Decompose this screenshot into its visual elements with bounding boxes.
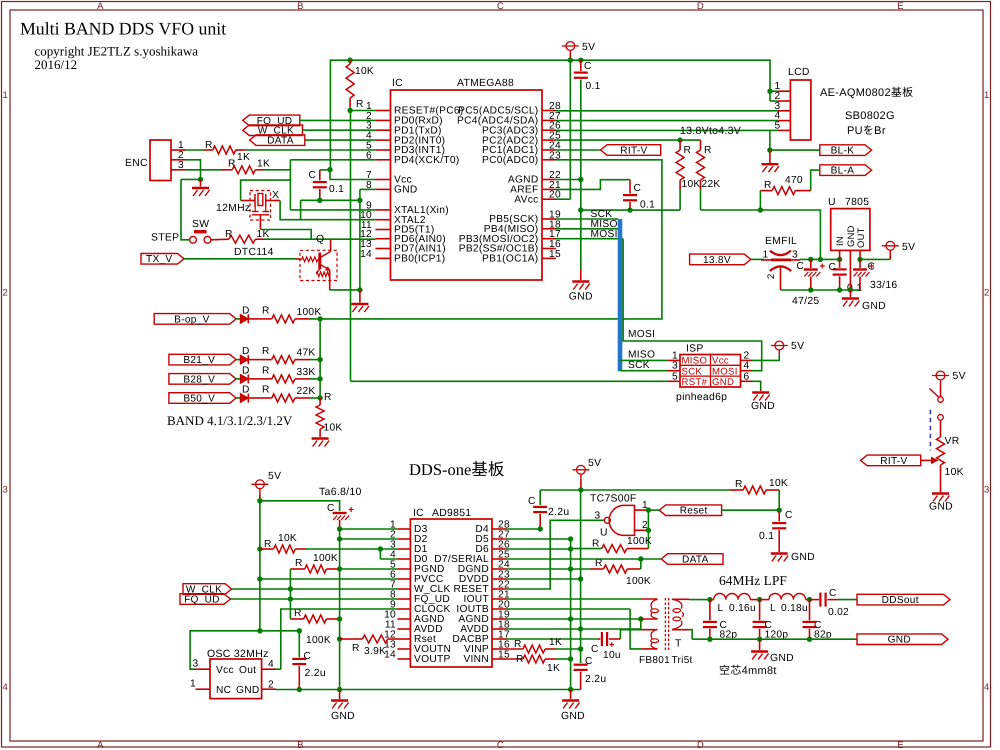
svg-text:E: E	[897, 740, 904, 750]
inductor L 0.16u	[707, 597, 712, 602]
wire 470R to 13.8V line	[759, 191, 761, 210]
svg-text:3: 3	[178, 160, 184, 171]
svg-text:D: D	[242, 346, 250, 357]
power 5V out	[886, 241, 895, 250]
wire RESET rail down to ISP RST#	[350, 111, 352, 382]
flag W_CLK	[243, 125, 303, 136]
AD9851 pin 19 AGND	[492, 618, 507, 620]
flag DATA top	[250, 135, 305, 146]
svg-text:2: 2	[984, 287, 990, 298]
svg-text:T: T	[675, 639, 682, 650]
wire w3 leads	[641, 629, 657, 631]
AD9851 pin 17 DACBP	[492, 638, 507, 640]
svg-text:4: 4	[3, 682, 9, 693]
ATMEGA88 pin 28 PC5(ADC5/SCL)	[542, 110, 556, 112]
wire AREF pin21 jog	[556, 180, 630, 190]
node VINN gnd	[568, 656, 573, 661]
wire 5V rail x259	[259, 501, 261, 631]
wire SCK to ISP3	[620, 370, 668, 372]
svg-text:GND: GND	[569, 292, 593, 303]
flag B21_V	[169, 354, 236, 365]
AD9851 pin 4 D0	[397, 558, 410, 560]
svg-text:OUT: OUT	[855, 227, 866, 248]
svg-text:D: D	[697, 1, 704, 12]
wire 7805 out to 5V	[860, 258, 890, 260]
wire AGND pin22	[556, 179, 581, 181]
svg-text:R: R	[295, 558, 303, 569]
svg-text:R: R	[704, 145, 712, 156]
svg-text:IN: IN	[834, 236, 845, 246]
svg-text:R: R	[205, 140, 213, 151]
svg-text:15: 15	[549, 249, 561, 260]
svg-text:GND: GND	[862, 301, 886, 312]
flag FQ_UD	[243, 115, 300, 126]
svg-text:GND: GND	[929, 502, 953, 513]
node L1-L2	[757, 597, 762, 602]
node 7805 IN	[837, 257, 842, 262]
resistor R 10K divider	[679, 140, 681, 150]
node AGND-gnd	[568, 616, 573, 621]
svg-text:0.16u: 0.16u	[729, 603, 756, 614]
wire DATA riser	[640, 559, 642, 569]
svg-text:2.2u: 2.2u	[548, 507, 569, 518]
node Vcc C junction	[327, 167, 332, 172]
ATMEGA88 pin 18 PB4(MISO)	[542, 228, 556, 230]
flag B50_V	[169, 393, 236, 404]
svg-text:R: R	[514, 639, 522, 650]
node 5V-sym	[568, 58, 573, 63]
5V power symbol top rail	[566, 42, 575, 51]
svg-text:Out: Out	[239, 665, 256, 676]
svg-text:1K: 1K	[547, 663, 560, 674]
svg-text:SCK: SCK	[628, 360, 650, 371]
ATMEGA88 pin 1 RESET#(PC6)	[375, 110, 390, 112]
svg-text:R: R	[225, 229, 233, 240]
AD9851 pin 23 DVDD	[492, 578, 507, 580]
wire D1 row	[380, 548, 397, 550]
resistor R 470	[811, 170, 820, 191]
svg-text:0.1: 0.1	[586, 81, 601, 92]
AD9851 pin 18 AVDD	[492, 628, 507, 630]
svg-text:C: C	[585, 656, 593, 667]
flag 13.8V	[690, 254, 751, 265]
node 5V-R10K	[347, 58, 352, 63]
svg-text:GND: GND	[770, 653, 794, 664]
svg-text:100K: 100K	[306, 635, 331, 646]
wire 5V to 2.2u	[260, 631, 299, 658]
svg-text:100K: 100K	[313, 553, 338, 564]
diode D (B28_V)	[236, 378, 240, 380]
svg-text:C: C	[785, 510, 793, 521]
node gnd 47/25	[808, 287, 813, 292]
capacitor C 2.2u (D4)	[539, 490, 541, 505]
svg-text:SW: SW	[192, 219, 209, 230]
node C0.1 bottom	[317, 198, 322, 203]
wire 13.8V rail	[800, 258, 840, 260]
svg-text:12MHz: 12MHz	[216, 203, 250, 214]
svg-text:2.2u: 2.2u	[305, 668, 326, 679]
svg-text:C: C	[497, 740, 504, 750]
capacitor C 47/25	[810, 259, 812, 268]
svg-text:0.1: 0.1	[640, 200, 655, 211]
ground GND dds	[339, 690, 341, 700]
diode D (B21_V)	[236, 359, 240, 361]
node gnd C0.1	[837, 287, 842, 292]
ATMEGA88 pin 3 PD1(TxD)	[375, 129, 390, 131]
svg-text:FB801: FB801	[639, 655, 670, 666]
wire w2 bottom to lpf gnd	[689, 630, 692, 640]
svg-text:GND: GND	[751, 401, 775, 412]
svg-text:33/16: 33/16	[870, 280, 898, 291]
svg-text:C: C	[497, 1, 504, 12]
svg-text:2: 2	[268, 680, 274, 691]
diode D (B50_V)	[236, 397, 240, 399]
wire w2 leads	[672, 598, 690, 600]
svg-text:5: 5	[672, 371, 678, 382]
wire 5V to Ta cap	[260, 501, 340, 511]
node nand in1	[646, 507, 651, 512]
svg-text:BL-K: BL-K	[831, 146, 855, 157]
node AGND	[578, 177, 583, 182]
AD9851 pin 2 D2	[397, 538, 410, 540]
ATMEGA88 pin 25 PC2(ADC2)	[542, 139, 556, 141]
svg-text:NC: NC	[216, 685, 231, 696]
svg-text:RIT-V: RIT-V	[620, 145, 647, 156]
node D1 jog	[378, 546, 383, 551]
wire DVDD row	[507, 578, 581, 580]
wire LCD5 to BL-K	[769, 130, 771, 150]
wire DGND row	[507, 568, 571, 570]
svg-text:E: E	[897, 1, 904, 12]
svg-text:GND: GND	[236, 685, 260, 696]
capacitor C 0.02	[810, 599, 820, 601]
ground GND ISP	[752, 391, 769, 393]
ground GND band	[312, 437, 329, 439]
svg-text:DDS-one基板: DDS-one基板	[409, 460, 504, 479]
ATMEGA88 pin 20 AVcc	[542, 198, 556, 200]
potentiometer VR 10K	[940, 420, 942, 437]
svg-text:MOSI: MOSI	[591, 229, 618, 240]
svg-text:10K: 10K	[355, 66, 374, 77]
ATMEGA88 pin 13 PD7(AIN1)	[375, 248, 390, 250]
node 2.2u top	[297, 628, 302, 633]
svg-text:0.02: 0.02	[828, 607, 849, 618]
svg-text:47/25: 47/25	[792, 296, 820, 307]
svg-text:AVcc: AVcc	[514, 194, 538, 205]
node band B50_V	[317, 395, 322, 400]
svg-text:33K: 33K	[297, 367, 316, 378]
svg-text:Ta6.8/10: Ta6.8/10	[319, 486, 362, 498]
wire nand output to DDS RESET	[507, 520, 605, 589]
wire C0.1 to AGND	[580, 80, 582, 180]
svg-text:R: R	[262, 346, 270, 357]
wire STEP to PD6	[264, 238, 375, 240]
svg-text:D: D	[242, 365, 250, 376]
capacitor C 2.2u (OSC)	[292, 658, 306, 660]
svg-text:ISP: ISP	[686, 344, 704, 355]
svg-text:PB0(ICP1): PB0(ICP1)	[394, 254, 445, 265]
svg-text:AD9851: AD9851	[432, 508, 471, 519]
svg-text:L: L	[718, 603, 724, 614]
svg-text:R: R	[592, 539, 600, 550]
wire STEP left riser	[181, 179, 190, 239]
svg-text:Reset: Reset	[680, 506, 708, 517]
ground GND lpf	[759, 639, 761, 650]
capacitor C 0.1 at 5V rail	[580, 60, 582, 71]
wire ISP Vcc	[752, 355, 779, 361]
svg-text:R: R	[262, 365, 270, 376]
ATMEGA88 pin 27 PC4(ADC4/SDA)	[542, 119, 556, 121]
svg-text:Multi BAND DDS VFO unit: Multi BAND DDS VFO unit	[20, 19, 226, 39]
node BL-K	[767, 147, 772, 152]
ATMEGA88 pin 19 PB5(SCK)	[542, 218, 556, 220]
flag RIT-V (VR)	[861, 455, 921, 466]
AD9851 pin 13 VOUTN	[397, 648, 410, 650]
resistor R 22K divider	[700, 140, 702, 150]
svg-text:0.1: 0.1	[329, 184, 344, 195]
wire V2 xtal2 jog	[300, 200, 302, 219]
node AVDD 5V	[578, 626, 583, 631]
svg-text:RIT-V: RIT-V	[880, 456, 907, 467]
power 5V VR	[936, 371, 945, 380]
wire PVCC row	[257, 576, 262, 581]
svg-text:BL-A: BL-A	[831, 166, 855, 177]
svg-text:10K: 10K	[324, 423, 343, 434]
wire D4 row	[507, 528, 541, 530]
wire AGND row	[507, 618, 641, 620]
svg-text:B: B	[297, 740, 304, 750]
svg-text:A: A	[97, 740, 104, 750]
ATMEGA88 pin 11 PD5(T1)	[375, 229, 390, 231]
svg-text:TC7S00F: TC7S00F	[590, 494, 637, 505]
node divider top	[677, 137, 682, 142]
wire SCK pin19	[556, 218, 618, 220]
svg-text:LCD: LCD	[788, 67, 810, 78]
svg-text:64MHz LPF: 64MHz LPF	[719, 573, 787, 588]
wire ENC gnd stub	[200, 179, 202, 186]
node riser1384	[818, 257, 823, 262]
svg-text:GND: GND	[791, 552, 815, 563]
svg-text:C: C	[591, 644, 599, 655]
svg-text:10K: 10K	[769, 478, 788, 489]
AD9851 pin 14 VOUTP	[397, 658, 410, 660]
ATMEGA88 pin 4 PD2(INT0)	[375, 139, 390, 141]
wire ENC1 to PD3	[245, 149, 375, 151]
node gnd rail x570 bottom	[568, 687, 573, 692]
svg-text:1K: 1K	[257, 159, 270, 170]
svg-text:100K: 100K	[627, 536, 652, 547]
node 100K gnd	[337, 616, 342, 621]
flag W_CLK (DDS)	[183, 584, 232, 595]
node VINP 5V	[578, 646, 583, 651]
AD9851 pin 8 FQ_UD	[397, 598, 410, 600]
wire power gnd rail	[781, 289, 861, 291]
wire riser agnd to w3 line	[640, 619, 642, 630]
svg-text:PC0(ADC0): PC0(ADC0)	[482, 155, 538, 166]
svg-text:Tri5t: Tri5t	[672, 655, 693, 666]
svg-text:6: 6	[744, 371, 750, 382]
wire 5V rail to 10K	[581, 489, 730, 491]
wire 5V to LCD	[770, 100, 777, 102]
ground GND VR	[932, 492, 949, 494]
AD9851 pin 10 AGND	[397, 618, 410, 620]
node 5V-C	[578, 58, 583, 63]
wire D3 row	[340, 528, 398, 530]
node D6	[568, 546, 573, 551]
svg-text:10K: 10K	[278, 533, 297, 544]
svg-text:5V: 5V	[268, 471, 281, 482]
ground GND power	[849, 290, 851, 297]
AD9851 pin 25 D7/SERIAL	[492, 558, 507, 560]
svg-text:空芯4mm8t: 空芯4mm8t	[719, 664, 777, 677]
svg-text:3.9K: 3.9K	[364, 646, 386, 657]
wire Reset to flag	[722, 509, 780, 511]
power 5V at ISP	[775, 341, 784, 350]
ATMEGA88 pin 7 Vcc	[375, 179, 390, 181]
svg-text:GND: GND	[561, 711, 585, 722]
wire band junction column	[319, 319, 321, 398]
svg-text:GND: GND	[331, 711, 355, 722]
wire SDA PC4 to LCD4	[556, 120, 777, 122]
svg-text:ATMEGA88: ATMEGA88	[457, 78, 514, 89]
node 47/25	[808, 257, 813, 262]
svg-text:14: 14	[360, 249, 372, 260]
wire dashed switch link	[929, 410, 931, 451]
svg-text:13.8Vto4.3V: 13.8Vto4.3V	[680, 125, 741, 137]
svg-text:B-op_V: B-op_V	[174, 314, 209, 325]
resistor R 22K (B50_V)	[249, 397, 262, 399]
wire junction column x290	[289, 160, 291, 210]
ground GND below IC	[351, 303, 368, 305]
AD9851 pin 16 VINP	[492, 648, 507, 650]
wire MISO to ISP1	[620, 359, 668, 361]
wire 5V rail	[569, 55, 571, 60]
svg-text:5V: 5V	[588, 458, 601, 469]
svg-text:EMFIL: EMFIL	[765, 236, 797, 247]
node 2.2u gnd	[297, 687, 302, 692]
node AGND-w3	[638, 616, 643, 621]
wire PC2 row to divider	[556, 139, 701, 141]
ATMEGA88 pin 5 PD3(INT1)	[375, 149, 390, 151]
node lpf2	[757, 637, 762, 642]
svg-text:SB0802G: SB0802G	[845, 110, 895, 122]
resistor R 100K (FQ_UD pulldown)	[290, 618, 303, 620]
svg-text:R: R	[262, 305, 270, 316]
node band B28_V	[317, 376, 322, 381]
wire ENC gnd h	[181, 178, 201, 180]
AD9851 pin 24 DGND	[492, 568, 507, 570]
wire Vcc pin7	[330, 170, 375, 180]
resistor R 3.9K (Rset)	[337, 636, 342, 641]
wire D0 row	[380, 558, 397, 560]
ground GND reset	[771, 552, 788, 554]
svg-text:5V: 5V	[791, 341, 804, 352]
wire nand inputs	[635, 509, 649, 511]
resistor R 100K (B-op_V)	[249, 318, 262, 320]
svg-text:DATA: DATA	[267, 136, 294, 147]
wire W_CLK row	[232, 588, 398, 590]
svg-text:C: C	[829, 588, 837, 599]
svg-text:L: L	[770, 603, 776, 614]
AD9851 pin 9 CLOCK	[397, 608, 410, 610]
wire GND pin8 column	[360, 188, 376, 190]
svg-text:STEP: STEP	[151, 233, 179, 244]
flag DDSout	[838, 599, 857, 601]
wire Q emitter	[329, 271, 331, 290]
svg-text:470: 470	[785, 175, 803, 186]
node lpf3	[807, 637, 812, 642]
svg-text:D: D	[242, 305, 250, 316]
ATMEGA88 pin 21 AREF	[542, 188, 556, 190]
wire D6 row	[507, 548, 571, 550]
node lpf1	[707, 637, 712, 642]
wire gnd x570 to 2.2u	[571, 689, 581, 691]
ground GND BL-K	[769, 150, 771, 163]
flag TX_V	[141, 254, 184, 265]
resistor R 100K (W_CLK pulldown)	[289, 569, 291, 619]
resistor R 1K (VINP)	[507, 648, 524, 650]
svg-text:0.1: 0.1	[759, 531, 774, 542]
svg-text:pinhead6p: pinhead6p	[676, 392, 727, 403]
ATMEGA88 pin 22 AGND	[542, 179, 556, 181]
wire IOUT row	[507, 598, 642, 600]
svg-text:C: C	[797, 261, 805, 272]
wire PD4 row	[290, 159, 375, 161]
ground GND below AGND	[572, 280, 589, 282]
AD9851 pin 1 D3	[397, 528, 410, 530]
resistor R 33K (B28_V)	[249, 378, 262, 380]
resistor R 1K (ENC pin1)	[186, 149, 204, 151]
wire W_CLK to PD1	[303, 129, 376, 131]
svg-text:VINN: VINN	[463, 654, 489, 665]
resistor R 47K (B21_V)	[249, 359, 262, 361]
svg-text:TX_V: TX_V	[146, 254, 172, 265]
svg-text:ENC: ENC	[125, 158, 148, 169]
node band B-op_V	[317, 316, 322, 321]
ATMEGA88 pin 26 PC3(ADC3)	[542, 129, 556, 131]
capacitor C 82p (1)	[709, 600, 711, 621]
AD9851 pin 20 IOUTB	[492, 608, 507, 610]
svg-text:1K: 1K	[257, 229, 270, 240]
svg-text:IC: IC	[392, 78, 403, 89]
svg-text:3: 3	[3, 485, 9, 496]
svg-text:Q: Q	[316, 234, 324, 245]
AD9851 pin 27 D5	[492, 538, 507, 540]
svg-text:2016/12: 2016/12	[35, 57, 78, 72]
wire nand in to flag	[648, 509, 659, 511]
AD9851 pin 26 D6	[492, 548, 507, 550]
node gnd rail bottom	[337, 687, 342, 692]
svg-text:R: R	[262, 385, 270, 396]
wire LPF gnd line	[692, 638, 857, 640]
svg-text:2: 2	[766, 273, 777, 279]
ATMEGA88 pin 10 XTAL2	[375, 219, 390, 221]
svg-text:GND: GND	[394, 185, 418, 196]
wire w3 bottom to IOUTB	[630, 609, 641, 649]
node AGND-lineA	[578, 207, 583, 212]
node band B21_V	[317, 357, 322, 362]
ATMEGA88 pin 14 PB0(ICP1)	[375, 257, 390, 259]
svg-text:47K: 47K	[297, 348, 316, 359]
node Reset	[777, 508, 782, 513]
node 13.8V line	[758, 207, 763, 212]
power 5V DDS	[256, 480, 265, 489]
wire D1-D0 jog	[379, 549, 381, 559]
flag BL-K	[770, 149, 820, 151]
wire ENC3 to PD4 riser	[264, 169, 290, 171]
wire 5V rail dds right	[540, 489, 581, 491]
capacitor C 2.2u (5V bypass)	[574, 664, 588, 666]
